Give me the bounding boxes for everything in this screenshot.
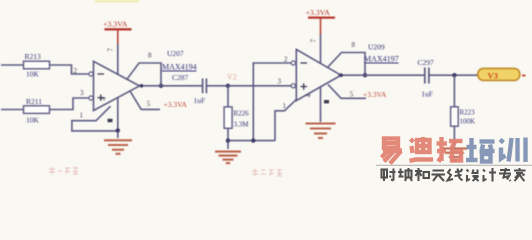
wire: ground net to U209 pin 2 feedback xyxy=(228,63,297,141)
resistor R211 xyxy=(24,97,50,125)
power +3.3VA (stage 1) xyxy=(103,20,132,46)
线 xyxy=(448,169,454,181)
wire: pin 4 to ground (U209) xyxy=(320,87,322,123)
subtitle 射频和天线设计专家 xyxy=(382,168,526,182)
char 拓 xyxy=(437,137,463,161)
op-amp U207 part value MAX4194 xyxy=(162,63,197,72)
node: feedback junction xyxy=(251,138,255,142)
天 xyxy=(433,169,445,171)
capacitor C287 xyxy=(172,73,206,105)
wire: C287 to node V2 xyxy=(206,85,228,87)
wire: pin 8 feedback loop to output (U209) xyxy=(327,53,365,76)
node: R226 bottom junction xyxy=(226,138,230,142)
射 xyxy=(382,170,388,178)
wire: R213 to op-amp pin 2 xyxy=(50,65,89,74)
wire: pin 7 supply (U209) xyxy=(320,34,322,64)
wire: pin 5 REF stub (U209) xyxy=(328,85,366,99)
faint caption (stage 1) xyxy=(49,167,78,174)
faint cropped element at top edge xyxy=(95,0,139,3)
resistor R213 xyxy=(24,52,50,79)
ground (stage 2) xyxy=(306,124,336,139)
和 xyxy=(415,170,422,172)
node: output junction xyxy=(159,84,163,88)
wire: pin 8 feedback loop to output xyxy=(127,63,162,86)
wire: C297 to port xyxy=(429,74,478,76)
char 训 xyxy=(500,138,526,163)
op-amp U207 triangle xyxy=(89,61,140,110)
wire: input to R213 xyxy=(1,64,24,66)
char 培 xyxy=(466,138,495,162)
wire: output to C287 xyxy=(143,85,202,87)
计 xyxy=(483,170,485,172)
wire: pin 7 supply xyxy=(117,44,119,74)
wire: input to R211 xyxy=(1,109,24,111)
wire: R211 to op-amp pin 3 xyxy=(50,98,89,110)
char 迪 xyxy=(410,137,434,161)
resistor R223 xyxy=(451,75,476,147)
设 xyxy=(467,170,469,172)
node V2 junction xyxy=(226,84,230,88)
op-amp U209 triangle xyxy=(291,49,341,100)
capacitor C297 xyxy=(418,58,435,98)
node: output junction (U209) xyxy=(363,73,367,77)
node: ground junction xyxy=(116,128,120,132)
op-amp U209 output pin xyxy=(338,73,344,77)
resistor R226 xyxy=(224,86,249,149)
faint caption (stage 2) xyxy=(252,169,282,176)
op-amp U207 output pin xyxy=(139,84,145,88)
char 易 xyxy=(382,139,403,164)
ground (stage 1) xyxy=(104,140,132,154)
wire: output to C297 xyxy=(343,74,424,76)
watermark logo 易迪拓培训 xyxy=(0,0,532,186)
专 xyxy=(500,169,510,171)
wire: pin 1 loop to ground net xyxy=(72,106,118,131)
频 xyxy=(399,169,401,177)
ground (right, behind watermark) xyxy=(441,149,467,161)
port V3 xyxy=(478,68,526,80)
power +3.3VA (stage 2) xyxy=(306,8,336,35)
pin 8 mark (bottom slant) xyxy=(108,119,113,122)
家 xyxy=(518,168,520,170)
op-amp U209 part value MAX4197 xyxy=(364,55,399,64)
node: output net junction xyxy=(452,73,456,77)
wire: pin 4 to ground xyxy=(117,98,119,139)
wire: V2 to op-amp U209 pin 3 xyxy=(228,85,291,87)
wire: pin 5 REF stub xyxy=(130,91,160,109)
ground (middle) xyxy=(215,152,241,164)
divider line xyxy=(376,164,532,166)
pin 8 mark (bottom slant U209) xyxy=(324,100,329,103)
